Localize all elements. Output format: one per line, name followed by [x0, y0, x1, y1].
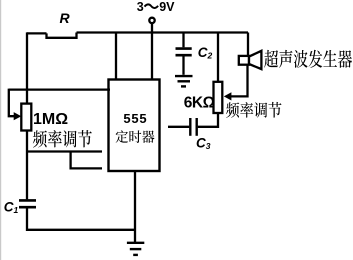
svg-text:R: R — [60, 10, 71, 26]
left edge scan artifact — [0, 0, 1, 260]
IC U1 555 timer box — [109, 80, 160, 172]
wire rail to 6K potentiometer — [217, 33, 219, 82]
wire left vertical from rail to potentiometer — [26, 32, 28, 103]
wire pin top-left of 555 to rail — [115, 33, 117, 80]
wire top rail right segment — [77, 31, 249, 33]
label chao-sheng-bo-fa-sheng-qi (ultrasonic generator) — [264, 50, 352, 68]
capacitor C1 top plate — [19, 199, 36, 202]
wire C3 left toward 555 output — [168, 126, 189, 128]
label pin-lv-tiao-jie (frequency adjust, right) — [226, 102, 281, 118]
label ding-shi-qi (timer) — [116, 130, 155, 143]
wire rail end down to speaker — [247, 33, 249, 56]
speaker horn — [249, 51, 261, 69]
svg-text:555: 555 — [123, 111, 147, 126]
wire power terminal to 555 top-right pin — [151, 23, 153, 79]
arrowhead wiper of RP2 — [224, 92, 232, 100]
wire C1 to bottom rail — [27, 208, 135, 229]
wire potentiometer bottom to C1 — [26, 131, 28, 200]
svg-text:6KΩ: 6KΩ — [184, 95, 215, 112]
speaker (ultrasonic transducer) driver box — [239, 56, 249, 65]
svg-text:C1: C1 — [4, 200, 19, 215]
ground symbol below C2 — [175, 76, 193, 86]
wire pins 2-6 link step — [71, 152, 102, 169]
resistor R (dip in rail) — [47, 33, 77, 38]
wire C2 to ground — [182, 56, 184, 74]
label 3~9V — [137, 0, 175, 14]
potentiometer RP2 6K ohm body — [214, 82, 223, 113]
power terminal circle 3~9V — [149, 18, 154, 23]
svg-text:9V: 9V — [159, 0, 175, 14]
arrowhead wiper of RP1 — [14, 112, 22, 120]
wire top rail left segment — [27, 32, 47, 34]
wire left branch down to wiper — [9, 89, 16, 117]
wire speaker down to RP2 wiper — [229, 65, 248, 97]
capacitor C3 plates — [190, 118, 196, 136]
wire rail to C2 — [182, 33, 184, 48]
svg-text:C3: C3 — [196, 136, 211, 151]
svg-text:1MΩ: 1MΩ — [33, 111, 68, 128]
label pin-lv-tiao-jie (frequency adjust, left) — [33, 130, 92, 148]
wire pins 2-6 link upper horizontal — [27, 150, 102, 152]
capacitor C2 plates — [176, 49, 192, 56]
ground symbol below 555 — [127, 243, 144, 255]
capacitor C1 bottom plate — [19, 206, 36, 209]
wire 555 left pin branch (horizontal) — [9, 88, 110, 90]
wire RP2 bottom to C3 — [198, 113, 218, 127]
svg-text:C2: C2 — [198, 45, 213, 60]
wire 555 ground pin down — [134, 171, 136, 243]
svg-text:3: 3 — [137, 0, 144, 14]
potentiometer RP1 1M ohm body — [21, 104, 31, 131]
